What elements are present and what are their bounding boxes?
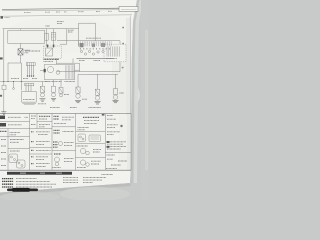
page edge shadow right xyxy=(130,0,140,183)
labels above bus3 xyxy=(11,77,19,79)
col1 figure text xyxy=(10,139,24,141)
legend table bottom border xyxy=(0,169,131,171)
col5 list rows xyxy=(107,141,126,143)
label row left xyxy=(25,50,40,52)
wire rail H3 xyxy=(78,73,118,75)
stack E7 xyxy=(115,74,117,88)
col1 rules xyxy=(0,120,30,122)
relay K2 label xyxy=(44,58,60,60)
cable photo blob xyxy=(7,189,38,192)
fine print left row1 xyxy=(2,178,14,180)
wire U loop xyxy=(79,23,96,46)
scanner background xyxy=(0,0,149,200)
wire long vertical xyxy=(66,29,68,45)
connector figure A xyxy=(9,154,18,163)
bottom band shadow xyxy=(0,183,131,196)
motor left pad xyxy=(44,69,46,72)
fine print right xyxy=(102,173,114,175)
page sheet xyxy=(0,0,137,193)
connector cluster C1 ticks xyxy=(79,41,113,46)
column divider A xyxy=(29,114,31,171)
col5 bottom cell xyxy=(107,154,116,156)
wire stub right of motor xyxy=(75,69,80,71)
wire drop with ring xyxy=(13,82,15,88)
col1 row1 xyxy=(0,116,5,120)
column divider E xyxy=(104,114,106,171)
colB cell marks xyxy=(31,115,36,117)
bundle pads xyxy=(27,75,28,76)
col4 row2 figures xyxy=(78,134,86,142)
relay coil K1 xyxy=(53,29,55,46)
page faint streaks xyxy=(112,62,126,112)
wire bus 2 xyxy=(57,40,120,42)
wire stub into T1 xyxy=(119,41,121,45)
control unit M2 xyxy=(22,92,37,103)
column divider B short xyxy=(36,114,38,129)
bottom band mottle xyxy=(0,192,60,202)
col3 rules xyxy=(52,126,76,128)
top rule 2 xyxy=(0,15,132,16)
wire jumper xyxy=(73,59,80,72)
column divider D xyxy=(75,114,77,171)
col3 row2 xyxy=(54,129,60,131)
wires into M2 xyxy=(25,86,27,92)
col2 row4 xyxy=(31,149,34,151)
fine print left row3 xyxy=(2,183,14,185)
connector figure B xyxy=(17,160,26,168)
col5 header xyxy=(107,114,113,116)
printed page border right xyxy=(129,16,131,114)
wire rail H2 xyxy=(57,71,120,73)
stack E4 xyxy=(60,80,62,88)
col2 rules xyxy=(37,120,52,122)
switch S1 label xyxy=(25,49,31,51)
fine print mid desc xyxy=(83,177,106,179)
stack E2 xyxy=(42,82,44,87)
column divider C xyxy=(51,114,53,171)
value label xyxy=(68,29,74,31)
left margin marks xyxy=(0,57,3,59)
wire stub xyxy=(20,29,22,31)
col2 row2 xyxy=(39,123,50,125)
col2 row3 xyxy=(31,131,34,133)
col1 row2 xyxy=(0,123,6,127)
wire from switch xyxy=(20,55,22,63)
relay pin terminals xyxy=(47,45,49,48)
page right rule xyxy=(130,114,132,171)
label above bus2 xyxy=(86,37,101,39)
cluster base line xyxy=(77,58,114,60)
fine print mid codes xyxy=(63,177,78,179)
col2 row5 xyxy=(31,156,34,158)
connector tickbar T3 xyxy=(25,83,34,86)
wire relay to motor xyxy=(56,58,58,64)
stack E6 xyxy=(97,74,99,89)
col5 rules xyxy=(105,152,131,154)
motor M1 box xyxy=(45,64,75,79)
row number divider xyxy=(7,129,9,171)
top rule 1 (double) xyxy=(2,8,119,9)
wire from T1 down xyxy=(119,62,121,72)
box K0 top-left xyxy=(8,30,45,43)
page number mark left xyxy=(1,16,4,18)
legend table top border xyxy=(0,113,131,115)
fuse F1 xyxy=(46,29,48,46)
motor label xyxy=(45,81,62,83)
connector T1 dashed box xyxy=(104,44,126,62)
col5 text block xyxy=(107,118,116,120)
wire bus 1 xyxy=(3,28,79,30)
col3 row3 xyxy=(54,153,61,155)
switch S1 xyxy=(20,43,22,48)
col2 row1 xyxy=(39,115,50,117)
header box top-right xyxy=(119,7,138,12)
col4 row4 xyxy=(80,160,85,165)
left stack component E1 xyxy=(2,85,6,89)
col4 rules xyxy=(76,131,106,133)
col4 row1 text xyxy=(83,116,99,118)
row numbers xyxy=(1,139,6,141)
col1 row3 xyxy=(0,130,7,132)
stack E3 xyxy=(53,80,55,87)
wire bundle xyxy=(27,65,29,75)
col4 corner mark xyxy=(102,114,105,116)
fine print left row4 xyxy=(2,186,14,188)
fine print left row2 xyxy=(2,180,14,182)
ground G1 xyxy=(1,111,6,113)
black title strip xyxy=(7,172,72,175)
relay K2 dashed box xyxy=(44,46,62,58)
page grain xyxy=(5,17,115,53)
right band streak light xyxy=(134,0,144,183)
wire stub left of motor xyxy=(40,69,44,71)
col4 row3 xyxy=(77,145,89,147)
col3 row1 xyxy=(54,115,60,117)
node labels above bus1 xyxy=(57,21,64,23)
wire left drop xyxy=(3,29,5,85)
top margin labels xyxy=(24,11,31,13)
wire bus 3 xyxy=(0,81,49,83)
right margin ticks xyxy=(122,27,124,29)
connector tickbar T2 xyxy=(26,63,35,66)
stack E5 xyxy=(77,74,79,87)
